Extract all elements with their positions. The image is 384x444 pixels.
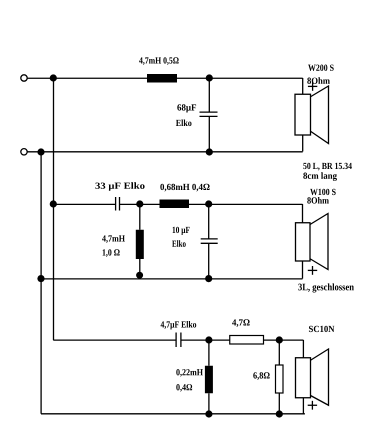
junction node E2 tweeterrail/R2	[276, 336, 283, 343]
label 4,7ohm	[232, 319, 249, 327]
wire speaker2 top	[302, 204, 304, 223]
label 0,68mH 0,4ohm	[160, 184, 209, 192]
wire L3 bottom	[139, 259, 141, 279]
terminal T1	[21, 75, 27, 81]
label 10 uF	[173, 227, 190, 235]
capacitor C3 10uF plates	[201, 239, 218, 243]
label 6,8ohm	[253, 372, 269, 380]
junction node C2 midrail/L3	[136, 200, 143, 207]
inductor L1 4,7mH 0,5 ohm	[147, 74, 177, 83]
junction node B1 rail2/bus2	[37, 148, 44, 155]
inductor L4 0,22mH shunt	[205, 366, 213, 394]
label Elko	[176, 119, 192, 126]
wire L4 top	[208, 340, 210, 366]
wire C3 top	[208, 204, 210, 239]
wire bottom rail	[41, 413, 305, 415]
junction node D3 midbottom/C3	[205, 275, 212, 282]
label 50 L, BR 15.34	[303, 163, 352, 171]
wire L3 top	[139, 204, 141, 230]
resistor R1 4,7 ohm	[230, 336, 264, 345]
inductor L2 0,68mH	[160, 200, 190, 209]
speaker SP3 SC10N tweeter	[296, 349, 329, 405]
wire rail1 top	[28, 77, 303, 79]
wire C1 bottom	[208, 117, 210, 152]
speaker SP1 W200S	[295, 86, 329, 144]
label 68uF	[177, 104, 196, 112]
capacitor C4 4,7uF plates	[176, 333, 181, 348]
wire C3 bottom	[208, 244, 210, 279]
speaker SP2 W100S	[296, 214, 329, 270]
label Elko	[172, 240, 186, 247]
plus sign SP1	[308, 82, 317, 91]
inductor L3 4,7mH shunt	[136, 230, 144, 259]
wire mid bottom rail	[41, 278, 303, 280]
label 1,0 ohm	[103, 249, 120, 257]
junction node B2 rail2/C1	[206, 148, 213, 155]
label 4,7mH	[102, 235, 125, 243]
terminal T2	[21, 149, 27, 155]
label 0,4ohm	[176, 384, 192, 392]
wire mid rail left	[53, 203, 115, 205]
wire speaker1 bottom	[302, 135, 304, 152]
wire R2 top	[278, 340, 280, 365]
junction node E1 tweeterrail/L4	[205, 336, 212, 343]
wire tweeter rail left	[53, 339, 175, 341]
wire bus2 vertical -	[40, 152, 42, 414]
label 3L, geschlossen	[298, 283, 354, 292]
wire speaker3 top	[302, 340, 304, 358]
junction node A2 rail1/C1	[206, 74, 213, 81]
junction node C3 midrail/C3	[205, 200, 212, 207]
capacitor C2 33uF plates	[116, 197, 120, 211]
plus sign SP2	[308, 266, 317, 275]
wire speaker3 bottom	[302, 398, 304, 414]
wire C1 top	[208, 78, 210, 112]
junction node D1 midbottom/bus2	[37, 275, 44, 282]
label SC10N	[309, 326, 334, 332]
label 0,22mH	[176, 369, 203, 377]
wire R2 bottom	[278, 393, 280, 414]
junction node D2 midbottom/L3	[136, 272, 143, 279]
plus sign SP3	[308, 401, 317, 410]
wire L4 bottom	[208, 393, 210, 414]
label 4,7uF Elko	[161, 321, 197, 330]
label 4,7mH 0,5ohm	[139, 57, 179, 65]
wire bus1 vertical +	[53, 78, 55, 340]
wire tweeter rail right	[181, 339, 303, 341]
label 33 uF Elko	[95, 182, 144, 191]
wire rail2	[28, 151, 303, 153]
junction node A1 rail1/bus1	[50, 74, 57, 81]
capacitor C1 68uF plates	[200, 112, 218, 116]
wire speaker1 top	[302, 78, 304, 94]
wire speaker2 bottom	[302, 261, 304, 279]
label 8Ohm	[307, 197, 329, 204]
junction node F2 bottomrail/R2	[276, 410, 283, 417]
junction node F1 bottomrail/L4	[205, 410, 212, 417]
wire mid rail right	[120, 203, 303, 205]
label 8Ohm	[307, 77, 330, 84]
label W100 S	[310, 189, 336, 195]
label W200 S	[308, 65, 334, 71]
junction node C1 midrail/bus1	[50, 200, 57, 207]
resistor R2 6,8 ohm	[276, 365, 284, 393]
label 8cm lang	[303, 172, 337, 181]
